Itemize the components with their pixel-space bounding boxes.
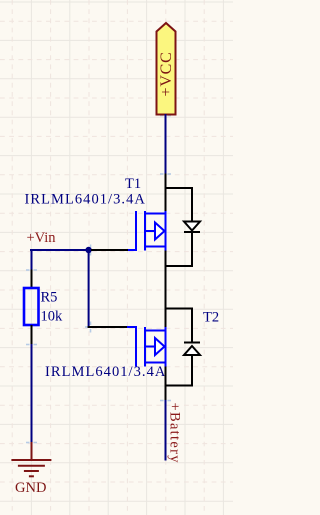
svg-text:IRLML6401/3.4A: IRLML6401/3.4A bbox=[25, 191, 146, 207]
svg-text:T1: T1 bbox=[125, 176, 141, 192]
wire +Vin horizontal bbox=[30, 249, 91, 251]
wire +VCC to T1 drain pin bbox=[165, 114, 167, 175]
pin R5 top (black) bbox=[31, 270, 33, 289]
svg-text:+VCC: +VCC bbox=[158, 51, 175, 96]
svg-text:+Battery: +Battery bbox=[167, 403, 183, 464]
pin T2 source (black) bbox=[165, 367, 167, 401]
wire junction to T1 gate (black) bbox=[91, 249, 128, 251]
pin T1 source / wire / pin T2 drain (black run between T1 and T2) bbox=[165, 251, 167, 328]
resistor R5 bbox=[24, 288, 39, 325]
wire junction down to T2 gate bbox=[88, 250, 90, 328]
body diode of T1 (black loop + diode pointing down) bbox=[165, 188, 201, 266]
wire R5 to GND bbox=[31, 344, 33, 443]
svg-text:R5: R5 bbox=[41, 290, 58, 306]
wire +Vin down to R5 bbox=[31, 249, 33, 271]
power port +VCC bbox=[157, 23, 176, 115]
pin hotspot markers bbox=[26, 110, 171, 448]
body diode of T2 (black loop + diode pointing up) bbox=[165, 309, 201, 386]
ground GND power object bbox=[11, 442, 51, 476]
junction node at +Vin / gates bbox=[85, 247, 91, 253]
pin T1 drain (black) bbox=[165, 174, 167, 213]
wire T2 source to +Battery bbox=[165, 400, 167, 461]
pin R5 bottom (black) bbox=[31, 325, 33, 345]
svg-text:T2: T2 bbox=[203, 310, 219, 326]
svg-text:IRLML6401/3.4A: IRLML6401/3.4A bbox=[45, 364, 166, 380]
svg-text:GND: GND bbox=[15, 480, 46, 496]
svg-text:+Vin: +Vin bbox=[27, 230, 57, 246]
transistor T2 (P-MOSFET, gate lead at top) bbox=[127, 326, 166, 367]
wire to T2 gate (black) bbox=[88, 326, 128, 328]
transistor T1 (P-MOSFET, gate lead at bottom) bbox=[127, 211, 166, 251]
svg-text:10k: 10k bbox=[41, 309, 64, 325]
